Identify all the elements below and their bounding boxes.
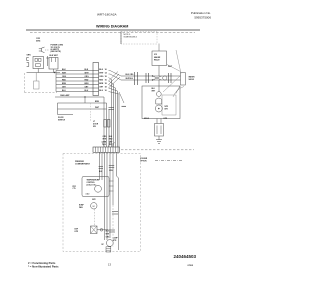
receptacle box [33, 57, 44, 69]
defrost thermostat [100, 229, 103, 232]
cabinet dashed border mid [121, 149, 194, 151]
cube relay box [152, 51, 167, 66]
svg-text:MAKER: MAKER [154, 56, 161, 59]
vertical harness bundle below bus [100, 152, 119, 250]
wire WHT [56, 73, 93, 75]
lead into box [158, 80, 160, 92]
svg-text:WIRING DIAGRAM: WIRING DIAGRAM [96, 24, 128, 28]
svg-text:WHT: WHT [152, 91, 156, 93]
compressor ground [106, 247, 111, 252]
power cord dashed lead [45, 49, 49, 51]
svg-text:ORG: ORG [103, 136, 108, 138]
leads below ice maker box [156, 119, 158, 124]
svg-text:14: 14 [105, 71, 107, 74]
svg-text:GRY: GRY [109, 141, 113, 143]
lamp leads [57, 103, 59, 115]
wire BLK [56, 70, 93, 72]
heater wire [97, 229, 109, 231]
lamp wire BRN [58, 102, 107, 104]
control box stubs to wires [109, 181, 114, 191]
svg-text:WHT: WHT [99, 72, 104, 74]
svg-text:HTR: HTR [75, 231, 79, 233]
feeder vertical [55, 71, 57, 92]
svg-text:18: 18 [105, 76, 107, 78]
svg-text:* = Non-Illustrated Parts: * = Non-Illustrated Parts [28, 265, 59, 269]
wire labels left [62, 69, 67, 92]
svg-text:BRN: BRN [99, 83, 104, 85]
ice maker thermostat [156, 92, 161, 97]
svg-text:DRV: DRV [165, 109, 169, 111]
control knob circle [95, 185, 102, 192]
door switch contacts [104, 120, 106, 128]
svg-text:BLK: BLK [99, 171, 103, 173]
svg-text:BLU: BLU [99, 90, 103, 92]
ice maker note box [121, 32, 157, 45]
compressor motor [106, 240, 113, 247]
svg-text:CTL: CTL [73, 188, 76, 190]
wire ORG [56, 77, 93, 79]
leader arc [173, 87, 184, 98]
terminal block [49, 58, 58, 70]
svg-text:SW: SW [93, 126, 96, 128]
svg-text:BRN: BRN [62, 83, 67, 85]
aux diagonal lead [119, 92, 124, 103]
ice maker unit box [142, 86, 180, 119]
cabinet dashed border bottom-left [25, 92, 58, 94]
dashed wire continuation [112, 205, 114, 247]
small fuse component [34, 81, 40, 89]
svg-text:MTR: MTR [165, 106, 169, 108]
crossing wires [153, 76, 162, 80]
svg-text:RED: RED [109, 139, 113, 141]
svg-text:CAB LAMP: CAB LAMP [60, 94, 70, 97]
connector P1 strip [93, 63, 99, 96]
junction dots [152, 75, 153, 76]
svg-text:WHT: WHT [106, 234, 110, 236]
svg-text:GRY: GRY [92, 199, 96, 201]
wire BLU [56, 91, 93, 93]
svg-text:ORG: ORG [99, 76, 104, 78]
svg-text:GRN: GRN [27, 54, 32, 56]
svg-text:VALVE: VALVE [189, 78, 195, 81]
dashed drop below fan [93, 209, 95, 227]
ground below connector [158, 136, 160, 140]
svg-text:ORG: ORG [85, 76, 90, 78]
inline connectors on bundle [99, 166, 115, 169]
inline connector pair [109, 229, 115, 231]
wire GRY [56, 87, 93, 89]
ice maker motor [155, 105, 162, 112]
slant-in wires to strip [102, 141, 115, 148]
evaporator fan motor [91, 203, 97, 209]
svg-text:240464503: 240464503 [174, 254, 197, 259]
ice maker chain wires [121, 75, 181, 77]
ground wire [27, 72, 61, 74]
svg-text:RC: RC [102, 244, 105, 246]
svg-text:ORG: ORG [62, 76, 67, 78]
junction [54, 72, 55, 73]
svg-text:18: 18 [105, 86, 107, 88]
svg-text:13: 13 [108, 262, 111, 266]
leads down from boxes [37, 69, 39, 73]
svg-text:SWITCH: SWITCH [58, 119, 66, 121]
svg-text:BRN: BRN [85, 83, 90, 85]
vertical harness bundle above bus [104, 80, 119, 148]
svg-text:BLK: BLK [109, 136, 113, 138]
svg-text:SOME MODELS: SOME MODELS [124, 37, 138, 39]
inner support box [162, 95, 176, 115]
dashed drop to switch [90, 103, 92, 121]
svg-text:OPTION: OPTION [140, 161, 147, 163]
svg-text:M: M [93, 206, 95, 208]
svg-text:07/02: 07/02 [188, 265, 194, 267]
inline ticks on wires [112, 212, 118, 215]
chamfer diagonal [176, 86, 180, 94]
svg-text:16: 16 [105, 79, 107, 81]
cabinet dashed border left drop [24, 73, 26, 93]
svg-text:BLK: BLK [99, 69, 103, 71]
lamp wire WHT [58, 108, 107, 110]
svg-text:COMP: COMP [113, 238, 119, 240]
cab lamp circuit wire [55, 96, 104, 98]
wire labels after connector col1 [99, 69, 104, 92]
svg-text:ORG: ORG [130, 74, 135, 76]
compressor labels [106, 231, 110, 239]
wire receptacle stub [47, 56, 49, 66]
svg-text:ORG: ORG [109, 170, 113, 172]
svg-text:MOLD: MOLD [144, 118, 150, 120]
water valve [181, 73, 186, 86]
freezer compartment dashed box [63, 154, 141, 252]
svg-text:16: 16 [105, 69, 107, 71]
ice maker plug connector [155, 124, 164, 137]
leader diagonal [176, 50, 181, 74]
svg-text:RELAY: RELAY [154, 58, 160, 61]
svg-text:(COLD CTL): (COLD CTL) [87, 184, 97, 186]
inline connector on bundle [109, 107, 115, 109]
harness wires fan [56, 71, 93, 92]
svg-text:5995375006: 5995375006 [194, 15, 211, 19]
temperature control box [82, 177, 109, 197]
svg-text:WRT-18GA2A: WRT-18GA2A [97, 13, 117, 17]
relay feed from note area [158, 44, 160, 52]
svg-text:GRY: GRY [99, 86, 104, 88]
wire BRN [56, 84, 93, 86]
svg-text:BLK: BLK [152, 88, 156, 90]
wire labels after connector col2 [105, 69, 107, 92]
wire labels right [85, 69, 90, 92]
svg-text:COMPARTMENT: COMPARTMENT [75, 162, 91, 165]
svg-text:RED: RED [99, 79, 103, 81]
defrost heater element [91, 226, 98, 234]
mold heater [156, 98, 162, 104]
power plug symbol [39, 47, 45, 53]
svg-text:(SEE NOTE): (SEE NOTE) [51, 51, 62, 53]
svg-text:16: 16 [105, 90, 107, 92]
relay lead down [158, 66, 160, 77]
svg-text:MTR: MTR [113, 240, 117, 242]
top rule [26, 29, 200, 31]
svg-text:BRN: BRN [95, 101, 100, 103]
svg-text:3 4 2: 3 4 2 [86, 193, 90, 196]
bundle labels above bus [103, 136, 114, 146]
connector strip P3 [93, 147, 120, 152]
chain connector bars [135, 72, 172, 85]
wire RED [56, 80, 93, 82]
cabinet dashed border top [30, 32, 195, 34]
svg-text:ORG: ORG [106, 237, 110, 239]
svg-text:BLK WHT: BLK WHT [50, 55, 59, 57]
svg-text:18: 18 [105, 83, 107, 85]
harness crossover routing [109, 71, 122, 95]
thermal cutoff [163, 76, 167, 80]
svg-text:BLK: BLK [106, 231, 110, 233]
svg-text:# = Functioning Parts: # = Functioning Parts [28, 261, 56, 265]
svg-text:60HZ: 60HZ [36, 40, 41, 42]
ground clip at cabinet [27, 58, 29, 67]
